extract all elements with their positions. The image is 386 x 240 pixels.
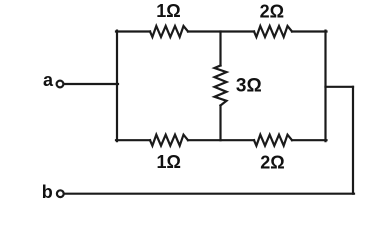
resistor R3 3ohm vertical zigzag <box>215 66 227 106</box>
wire bottom right segment <box>292 139 327 141</box>
svg-text:1Ω: 1Ω <box>156 152 180 172</box>
resistor R4 1ohm bottom zigzag <box>150 135 188 146</box>
terminal b <box>57 190 64 197</box>
wire a to left edge <box>64 83 118 85</box>
wire top right segment <box>292 30 327 32</box>
resistor R5 2ohm bottom zigzag <box>254 135 292 146</box>
wire left edge <box>116 31 118 142</box>
svg-text:b: b <box>42 182 53 202</box>
svg-text:a: a <box>43 70 54 90</box>
svg-text:1Ω: 1Ω <box>156 1 180 21</box>
wire bottom left segment <box>116 139 150 141</box>
terminal a <box>57 81 64 88</box>
svg-text:2Ω: 2Ω <box>260 153 284 173</box>
wire middle branch upper <box>219 32 221 66</box>
wire stub right of edge <box>326 86 354 88</box>
wire bottom middle segment <box>188 139 254 141</box>
svg-text:2Ω: 2Ω <box>260 2 284 22</box>
wire right edge <box>324 31 326 142</box>
wire b bottom <box>64 193 354 195</box>
resistor R2 2ohm top zigzag <box>254 26 292 37</box>
wire far right vertical <box>352 87 354 194</box>
wire middle branch lower <box>219 106 221 141</box>
wire top left segment <box>116 30 150 32</box>
wire top middle segment <box>188 30 254 32</box>
svg-text:3Ω: 3Ω <box>236 76 262 97</box>
resistor R1 1ohm top zigzag <box>150 26 188 37</box>
